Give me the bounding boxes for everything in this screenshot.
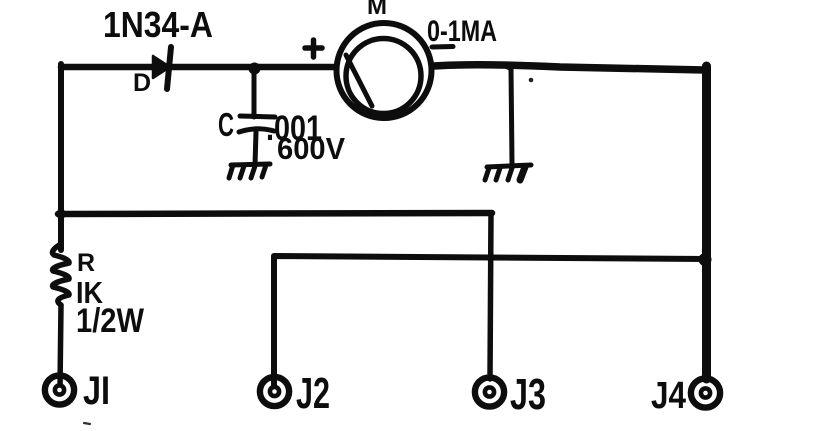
resistor R 1K 1/2W xyxy=(53,244,70,305)
svg-text:C: C xyxy=(218,106,234,143)
speck (photocopy noise) xyxy=(84,423,90,424)
ground (right) xyxy=(485,165,531,180)
wire bus 2 with J2 drop xyxy=(274,256,707,388)
jack J2 xyxy=(260,377,289,406)
svg-text:D: D xyxy=(133,69,151,97)
wire J3 drop xyxy=(490,213,491,379)
diode D (1N34-A) xyxy=(153,47,171,89)
jack J1 xyxy=(45,375,74,404)
underline under 0 xyxy=(432,44,453,50)
node junction dot bus2 / right rail xyxy=(699,253,712,266)
node small dot at ground tap xyxy=(505,62,513,70)
wire bus 1 (left rail to J3 drop) xyxy=(58,213,492,214)
wire capacitor bottom lead xyxy=(255,132,256,165)
wire meter to right rail xyxy=(434,65,705,70)
svg-text:0-1MA: 0-1MA xyxy=(427,15,497,48)
svg-text:J4: J4 xyxy=(651,375,686,417)
ground (capacitor) xyxy=(229,164,270,178)
wire to second ground xyxy=(511,68,512,163)
jack J4 xyxy=(691,378,720,407)
svg-text:R: R xyxy=(77,249,95,277)
svg-text:1/2W: 1/2W xyxy=(76,302,145,340)
jack J3 xyxy=(475,377,504,406)
wire top left (node between D anode and left rail) xyxy=(61,64,334,71)
svg-text:1N34-A: 1N34-A xyxy=(103,4,213,45)
svg-text:600V: 600V xyxy=(277,131,345,166)
wire left vertical rail xyxy=(58,64,64,250)
meter + polarity mark xyxy=(305,40,322,57)
svg-text:J2: J2 xyxy=(296,369,330,418)
meter M 0-1MA xyxy=(337,23,432,118)
svg-text:JI: JI xyxy=(83,369,110,413)
speck (photocopy noise) xyxy=(529,78,534,83)
wire capacitor top lead xyxy=(252,67,257,117)
node junction dot left rail / bus1 xyxy=(56,209,66,219)
capacitor C .001 600V xyxy=(239,116,275,132)
node junction dot at capacitor tap xyxy=(249,63,261,75)
wire right vertical rail down to J4 xyxy=(702,66,711,379)
wire resistor to J1 xyxy=(60,305,61,388)
svg-text:J3: J3 xyxy=(510,370,546,419)
svg-text:M: M xyxy=(367,0,387,20)
